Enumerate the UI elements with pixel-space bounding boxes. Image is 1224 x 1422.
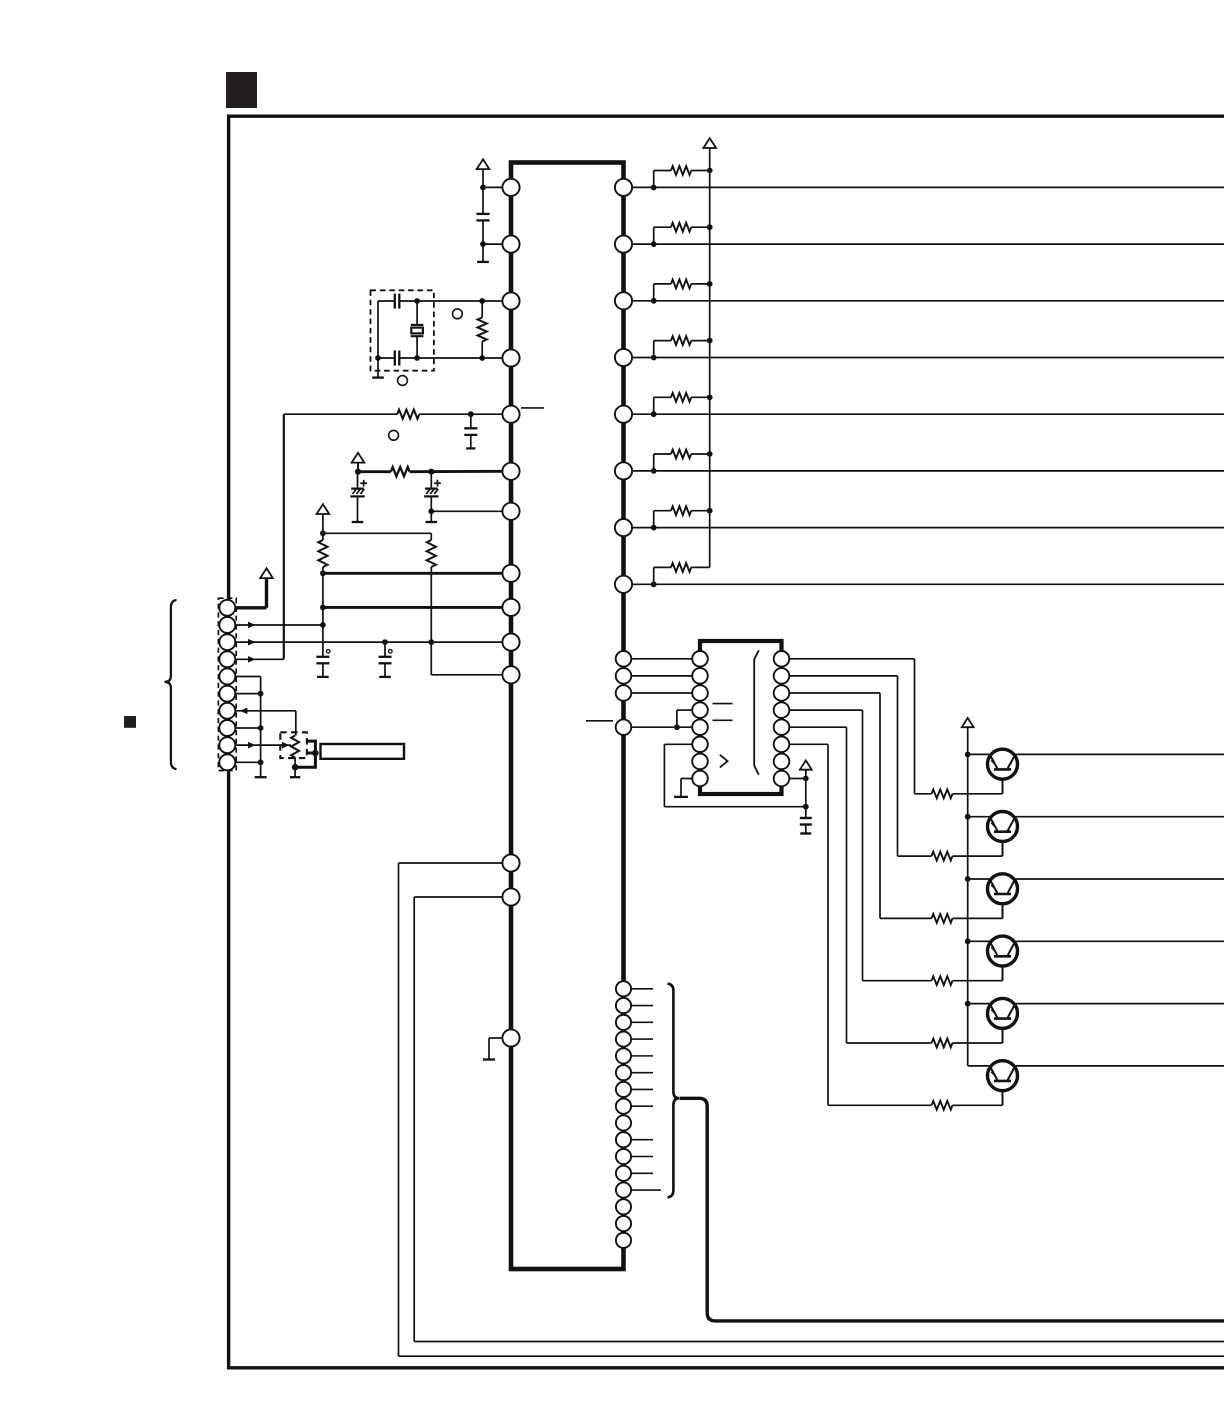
transistor Q2 (PNP) <box>988 812 1018 842</box>
power supply triangle (VCC) at U1 pin 1 <box>477 159 490 169</box>
U2 internal bracket <box>754 650 759 774</box>
transistor emitter rail <box>967 727 969 1066</box>
wire rail to Q5 emitter <box>968 1003 990 1005</box>
U2 internal label dashes <box>713 703 733 705</box>
junction rail to Q5 emitter <box>965 1001 971 1007</box>
junction rail row 3 <box>707 281 713 287</box>
wire C1 to U1 pin2 node <box>482 220 484 262</box>
thick link RV1 to label bar <box>295 741 315 767</box>
wire U1 pin13 to bottom rail B <box>414 896 502 898</box>
junction output 5 <box>651 411 657 417</box>
wire branch to pull-up R15 <box>653 397 655 414</box>
wire U2 output 4 routing <box>789 709 862 711</box>
wire X1 top node to U1 pin3 <box>417 300 502 302</box>
wire U1 right pin5 output line <box>632 413 1224 415</box>
wire CN1 pin7 to trimmer (arrow into pin) <box>227 710 295 712</box>
junction output 1 <box>651 185 657 191</box>
wire U2 output 6 routing <box>789 743 828 745</box>
junction node U1 pin1 <box>480 185 486 191</box>
ground bar for CN1 ground bus <box>255 776 267 778</box>
resistor R24 (base) <box>932 976 953 985</box>
U1 right group pins <box>616 651 632 667</box>
wire branch to pull-up R13 <box>653 284 655 301</box>
wire base row 1 <box>915 793 932 795</box>
wire R18 to rail <box>691 566 710 568</box>
bus wire to U1 pin9 (thick) <box>323 606 503 609</box>
junction rail to Q4 emitter <box>965 938 971 944</box>
U1 bottom pin stub 10 <box>631 1139 653 1141</box>
wire U1 right pin2 output line <box>632 243 1224 245</box>
wire U1 to U2 data 2 <box>632 675 692 677</box>
wire branch to pull-up R18 <box>653 567 655 584</box>
wire R11 to rail <box>691 170 710 172</box>
wire base row 5 <box>847 1042 932 1044</box>
trimmer resistor RV1 <box>291 736 299 758</box>
junction R4/C4 <box>468 411 474 417</box>
wire rail to Q4 emitter <box>968 940 990 942</box>
IC U2 (driver, body) <box>700 641 782 794</box>
power supply triangle (VCC) pull-up rail <box>703 138 716 148</box>
black square marker near CN1 <box>124 716 136 728</box>
junction node U1 pin2 <box>480 241 486 247</box>
resistor R26 (base) <box>932 1101 953 1110</box>
wire U2 output 2 routing <box>789 675 897 677</box>
wire C6 bottom to U1 pin7 <box>430 496 432 511</box>
wire rail to Q6 emitter <box>968 1065 990 1067</box>
junction output 6 <box>651 468 657 474</box>
junction R5/C6 node <box>428 469 434 475</box>
wire R25 to Q5 base <box>953 1042 1003 1044</box>
resistor R21 (base) <box>932 789 953 798</box>
capacitor C1 (decoupling U1 pins 1-2) <box>476 213 489 215</box>
wire Q1 collector output <box>1015 753 1224 755</box>
junction at R3 bottom <box>479 355 485 361</box>
wire down to C7 <box>322 625 324 657</box>
wire U1 to U2 data 3 <box>632 692 692 694</box>
resistor R14 (pull-up) <box>671 336 691 345</box>
junction CN1 pin8 on ground bus <box>258 725 264 731</box>
U1 bottom pin stub 3 <box>631 1021 653 1023</box>
wire rail to Q1 emitter <box>968 753 990 755</box>
resistor R11 (pull-up) <box>671 166 691 175</box>
wire U1 right pin4 output line <box>632 357 1224 359</box>
transistor Q5 (PNP) <box>988 998 1018 1028</box>
wire VCC to R1 top <box>322 514 324 533</box>
ground bar below C1 <box>477 261 489 263</box>
transistor Q3 (PNP) <box>988 874 1018 904</box>
ground flag bar <box>483 1058 495 1060</box>
junction output 8 <box>651 581 657 587</box>
ground below C7 <box>322 663 324 677</box>
wire U1 right pin8 output line <box>632 583 1224 585</box>
junction C8 tap <box>382 639 388 645</box>
resistor R18 (pull-up) <box>671 563 691 572</box>
wire R14 to rail <box>691 340 710 342</box>
wire branch to pull-up R17 <box>653 511 655 528</box>
wire Q5 collector output <box>1015 1003 1224 1005</box>
wire R16 to rail <box>691 453 710 455</box>
wire R2 node down to U1 pin11 <box>430 642 432 675</box>
wire R24 to Q4 base <box>953 980 1003 982</box>
wire node to R5 <box>358 470 391 473</box>
wire base row 3 <box>880 917 932 919</box>
wire R17 to rail <box>691 510 710 512</box>
ground below crystal block <box>377 358 379 378</box>
capacitor C3 (crystal load, bottom) <box>378 357 395 359</box>
junction at X1 top <box>414 298 420 304</box>
U1 bottom pin stub 13 (long) <box>631 1189 661 1191</box>
wire base row 2 <box>898 855 932 857</box>
wire CN1 pin8 <box>227 727 260 729</box>
dashed outline around crystal X1 circuit <box>371 290 434 370</box>
wire U1 pin12 to bottom rail A <box>399 862 503 864</box>
U2 right pins <box>774 651 790 667</box>
U1 bottom pin bank (16 pins) <box>616 981 631 996</box>
junction output 7 <box>651 525 657 531</box>
wire rail to Q2 emitter <box>968 816 990 818</box>
junction VCC/R5/C5 <box>355 469 361 475</box>
junction U2 VCC loop node <box>803 804 809 810</box>
junction rail to Q2 emitter <box>965 814 971 820</box>
junction output 4 <box>651 355 657 361</box>
wire R22 to Q2 base <box>953 855 1003 857</box>
U1 bottom pin stub 5 <box>631 1055 653 1057</box>
capacitor C4 (reset) <box>470 414 472 428</box>
wire branch to pull-up R11 <box>653 171 655 188</box>
U1 internal pin label dash (left) <box>521 407 544 409</box>
wire CN1 pin6 <box>227 693 260 695</box>
resistor R4 (reset row) <box>397 410 419 419</box>
junction rail to Q1 emitter <box>965 752 971 758</box>
ground bar at U2 pin8-left <box>674 796 688 798</box>
label bar (empty reference box) <box>321 744 405 759</box>
wire VCC to U1 pin1 node <box>482 169 484 214</box>
ground below C8 <box>384 663 386 677</box>
wire bottom rail B to right edge <box>414 1341 1224 1343</box>
capacitor C8 (on CN1 pin3 net) <box>384 642 386 657</box>
capacitor C2 (crystal load, top) <box>378 300 395 302</box>
junction C6/ground/U1 pin7 <box>428 508 434 514</box>
wire Q3 collector output <box>1015 878 1224 880</box>
resistor R2 (pull-up) <box>427 540 436 567</box>
wire U1 to U2 clock <box>632 726 692 728</box>
wire R12 to rail <box>691 226 710 228</box>
dashed outline around CN1 pins <box>218 598 236 770</box>
junction rail row 4 <box>707 338 713 344</box>
wire vertical from CN1 pin4 up to R4 <box>283 414 285 659</box>
resistor R16 (pull-up) <box>671 450 691 459</box>
wire R15 to rail <box>691 396 710 398</box>
junction rail row 2 <box>707 224 713 230</box>
schematic border frame <box>229 116 1224 1368</box>
wire CN1 pin10 <box>227 761 260 763</box>
junction RV1 bottom <box>292 764 299 771</box>
wire bus segment <box>322 573 324 607</box>
power supply triangle (VCC) at U2 pin8-right <box>800 760 812 769</box>
wire U1 right pin7 output line <box>632 527 1224 529</box>
junction U2 VCC node <box>803 776 809 782</box>
wire U1 pin14 to ground flag <box>489 1037 502 1039</box>
junction on thick link <box>312 750 319 757</box>
resistor R22 (base) <box>932 852 953 861</box>
wire base row 4 <box>863 980 932 982</box>
wire rail to Q3 emitter <box>968 878 990 880</box>
wire U2 output 3 routing <box>789 692 880 694</box>
wire U2 output 5 routing <box>789 726 846 728</box>
U2 clock input mark <box>720 755 728 768</box>
ground below RV1 <box>294 767 296 777</box>
power supply triangle (VCC) transistor rail <box>962 718 974 727</box>
wire crystal left leg <box>377 301 379 358</box>
wire R5 to U1 pin6 (thick) <box>410 470 503 473</box>
junction at R3 top <box>479 298 485 304</box>
resistor R15 (pull-up) <box>671 393 691 402</box>
transistor Q6 (PNP) <box>988 1061 1018 1091</box>
U1 bottom pin stub 1 <box>631 988 653 990</box>
junction output 2 <box>651 241 657 247</box>
resistor R25 (base) <box>932 1039 953 1048</box>
wire U1 right pin6 output line <box>632 470 1224 472</box>
transistor Q1 (PNP) <box>988 749 1018 779</box>
U1 internal pin label dash (right) <box>586 720 613 722</box>
junction rail to Q3 emitter <box>965 876 971 882</box>
power supply triangle (VCC) at CN1 pin1 <box>260 568 273 578</box>
junction CN1 pin10 on ground bus <box>258 759 264 765</box>
connector CN1 (10 pins) <box>219 600 235 616</box>
wire CN1 pin1 to VCC (thick) <box>227 606 266 609</box>
U1 left pins <box>502 179 519 196</box>
junction rail row 6 <box>707 451 713 457</box>
resistor R13 (pull-up) <box>671 280 691 289</box>
brace grouping connector CN1 <box>165 600 177 769</box>
via pad below crystal <box>398 376 408 386</box>
wire U1 right pin3 output line <box>632 300 1224 302</box>
brace grouping bottom pin bank <box>668 984 680 1198</box>
thick bus wire from brace to right edge <box>680 1098 1224 1321</box>
via pad near crystal <box>453 309 463 319</box>
wire Q4 collector output <box>1015 940 1224 942</box>
wire base row 6 <box>828 1104 932 1106</box>
junction U2 pin4/5 tie <box>674 724 680 730</box>
wire X1 bottom node to U1 pin4 <box>417 357 502 359</box>
wire U2 pin8-left to ground <box>681 778 692 780</box>
junction rail row 7 <box>707 508 713 514</box>
ground below C5 <box>357 496 359 522</box>
wire U1 pin5 row <box>471 413 503 415</box>
resistor R1 (pull-up) <box>318 540 327 567</box>
U1 bottom pin stub 7 <box>631 1088 653 1090</box>
crystal X1 <box>416 301 418 325</box>
resistor R12 (pull-up) <box>671 223 691 232</box>
wire Q2 collector output <box>1015 816 1224 818</box>
via pad near R4 <box>389 430 399 440</box>
wire U2 output 1 routing <box>789 658 914 660</box>
wire CN1 pin3 to U1 pin10 (arrow right) <box>227 641 502 643</box>
junction at X1 bottom <box>414 355 420 361</box>
U1 bottom pin stub 4 <box>631 1038 653 1040</box>
U1 bottom pin stub 11 <box>631 1156 653 1158</box>
junction output 3 <box>651 298 657 304</box>
junction bus node <box>320 605 326 611</box>
bus wire to U1 pin8 (thick) <box>323 572 503 575</box>
wire CN1 pin9 to trimmer wiper (arrow right) <box>227 744 291 746</box>
junction R1 bottom <box>320 570 326 576</box>
wire R1 top to R2 top <box>323 532 431 534</box>
wire U1 to U2 data 1 <box>632 658 692 660</box>
wire bus segment 2 <box>322 607 324 625</box>
U2 left pins <box>692 651 708 667</box>
dashed outline around trimmer RV1 <box>280 732 307 758</box>
junction R2 bottom on CN1 pin3 net <box>428 639 434 645</box>
ground below C4 <box>470 435 472 449</box>
resistor R23 (base) <box>932 914 953 923</box>
capacitor C9 (U2 supply decoupling) <box>800 817 812 819</box>
wire U1 right pin1 output line <box>632 186 1224 188</box>
wire R4 to left corner <box>284 413 397 415</box>
IC U1 (main microcontroller, body) <box>511 163 624 1270</box>
wire R13 to rail <box>691 283 710 285</box>
junction crystal ground leg <box>375 355 381 361</box>
resistor R5 (supply series) <box>391 467 410 476</box>
junction rail row 5 <box>707 394 713 400</box>
wire CN1 pin4 (arrow right) <box>227 658 283 660</box>
U1 bottom pin stub 12 <box>631 1172 653 1174</box>
U1 bottom pin stub 6 <box>631 1072 653 1074</box>
power supply triangle (VCC) feeding R5 <box>352 453 365 463</box>
U1 right pins (output bank) <box>615 179 632 196</box>
wire R21 to Q1 base <box>953 793 1003 795</box>
ground below C9 <box>805 825 807 834</box>
wire branch to pull-up R12 <box>653 227 655 244</box>
wire bottom rail A to right edge <box>399 1355 1224 1357</box>
junction R1 top <box>320 530 326 536</box>
wire VCC to U2 pin8-right <box>805 770 807 818</box>
wire branch to pull-up R14 <box>653 341 655 358</box>
power supply triangle (VCC) for R1/R2 <box>317 504 330 514</box>
transistor Q4 (PNP) <box>988 936 1018 966</box>
wire U2 pin6-left loop to VCC node <box>664 743 692 745</box>
resistor R3 (crystal feedback) <box>481 301 483 318</box>
U1 bottom pin stub 2 <box>631 1005 653 1007</box>
junction CN1 pin2 net <box>320 622 326 628</box>
ground below C6 <box>430 511 432 522</box>
wire VCC triangle to node <box>357 463 359 472</box>
resistor R17 (pull-up) <box>671 506 691 515</box>
wire CN1 pin5 to ground bus <box>227 675 260 677</box>
junction rail row 1 <box>707 168 713 174</box>
junction CN1 pin6 on ground bus <box>258 691 264 697</box>
pull-up rail vertical <box>709 148 711 567</box>
electrolytic capacitor C6 (+ mark) <box>430 472 432 489</box>
section marker (filled black square) <box>226 72 257 108</box>
wire R26 to Q6 base <box>953 1104 1003 1106</box>
wire RV1 bottom to node <box>294 758 296 768</box>
capacitor C7 (on CN1 pin2 net) <box>316 656 329 658</box>
U1 bottom pin stub 8 <box>631 1105 653 1107</box>
wire CN1 pin2 (arrow right) <box>227 624 323 626</box>
wire branch to pull-up R16 <box>653 454 655 471</box>
wire U2 pin4 tie <box>677 709 692 711</box>
wire Q6 collector output <box>1015 1065 1224 1067</box>
electrolytic capacitor C5 (+ mark) <box>357 472 359 489</box>
wire R23 to Q3 base <box>953 917 1003 919</box>
